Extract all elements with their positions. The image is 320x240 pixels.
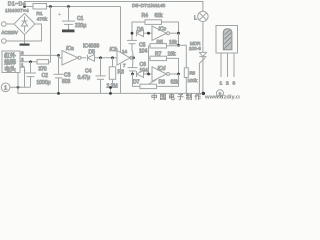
wire C1 drop x=68 [68, 7, 70, 21]
svg-text:14: 14 [122, 49, 128, 54]
svg-text:3: 3 [21, 51, 24, 56]
wire gate lead [199, 57, 205, 93]
wire C3 drop [58, 55, 60, 74]
svg-text:7: 7 [123, 63, 126, 68]
svg-text:62k: 62k [171, 80, 180, 86]
svg-text:D7: D7 [133, 79, 140, 85]
node R3 ground junction [109, 92, 112, 95]
resistor R1 [33, 4, 47, 10]
svg-text:370: 370 [38, 66, 47, 72]
terminal AC upper [2, 22, 7, 27]
node ICc output junction [177, 32, 180, 35]
wire VCC drop x=50 [49, 7, 51, 63]
svg-text:18k: 18k [168, 52, 177, 58]
svg-text:D5~D7:1N4148: D5~D7:1N4148 [132, 3, 166, 9]
node C4 junction [99, 56, 102, 59]
capacitor C2 [30, 62, 32, 73]
svg-text:C4: C4 [85, 69, 92, 75]
wire top +V rail [25, 6, 121, 8]
PIR module dome [223, 29, 232, 50]
svg-text:3: 3 [233, 81, 236, 87]
svg-text:热释: 热释 [4, 58, 16, 66]
wire terminal1 stub [10, 86, 31, 88]
node junction top rail left [23, 5, 26, 8]
svg-text:1: 1 [4, 86, 7, 92]
wire bridge minus drop [24, 35, 26, 44]
svg-text:R8: R8 [190, 70, 196, 75]
svg-text:100-6: 100-6 [189, 46, 201, 51]
node ICd input left junction [131, 73, 134, 76]
module pin 2 [227, 53, 229, 77]
terminal circle 1 [1, 83, 10, 92]
svg-text:2.2M: 2.2M [107, 84, 118, 90]
node ICb output junction [132, 56, 135, 59]
wire sensor box bottom lead [17, 73, 19, 88]
svg-text:R6: R6 [159, 80, 166, 86]
svg-text:红外: 红外 [4, 51, 16, 59]
wire AC lower to bridge right vertex [6, 24, 41, 41]
svg-text:104: 104 [139, 48, 148, 54]
node ICd output junction [177, 73, 180, 76]
wire SCR gate feed [179, 45, 187, 68]
ground under bridge [20, 44, 30, 46]
thyristor VS [202, 22, 204, 53]
resistor R3 [112, 58, 114, 67]
svg-text:R1: R1 [36, 11, 42, 17]
node ICc input junction [131, 32, 134, 35]
node junction top rail C1 [67, 5, 70, 8]
node C3 ground junction [57, 92, 60, 95]
node R3 stub junction [109, 86, 112, 89]
node R5 junction [177, 44, 180, 47]
resistor R8 [184, 68, 188, 78]
capacitor C3 [54, 73, 64, 75]
terminal circle 2 [216, 90, 223, 97]
wire AC upper [6, 23, 13, 25]
svg-text:ICb: ICb [110, 47, 118, 53]
resistor R6 loop [133, 74, 141, 86]
node sensor drain junction [29, 60, 32, 63]
svg-text:+: + [58, 12, 61, 18]
module pin 3 [233, 53, 235, 77]
svg-text:D1~D4: D1~D4 [8, 2, 26, 8]
capacitor C6 [132, 58, 135, 68]
svg-text:18k: 18k [169, 40, 178, 46]
wire ground rail [18, 87, 204, 93]
node SCR cathode ground [202, 92, 205, 95]
svg-text:62k: 62k [155, 13, 164, 19]
node junction top rail mid [49, 5, 52, 8]
PIR sensor head box [2, 51, 20, 73]
svg-text:IC4069: IC4069 [83, 43, 99, 49]
terminal AC lower [2, 39, 7, 44]
svg-text:2: 2 [21, 57, 24, 62]
svg-text:C2: C2 [42, 73, 49, 79]
svg-text:220μ: 220μ [75, 23, 86, 29]
svg-text:503: 503 [62, 79, 71, 85]
bridge rectifier D1-D4 [14, 13, 35, 34]
bridge inner diode [24, 17, 26, 22]
wire ICc out drop [178, 33, 180, 45]
PIR module case [216, 26, 238, 54]
wire top lamp feed [25, 2, 203, 12]
node ICd input junction [147, 73, 150, 76]
svg-text:C1: C1 [77, 16, 84, 22]
module pin 1 [220, 53, 222, 77]
node D6 anode junction [147, 32, 150, 35]
wire R5/R7 left riser [148, 46, 150, 74]
ground under C1 [62, 30, 75, 33]
node stub junction [17, 86, 20, 89]
capacitor C4 [100, 58, 102, 76]
svg-text:470k: 470k [37, 16, 48, 22]
svg-text:L: L [194, 16, 197, 22]
svg-text:0.47μ: 0.47μ [78, 75, 91, 81]
svg-text:100k: 100k [188, 78, 198, 83]
node R3 junction [111, 56, 114, 59]
svg-text:C3: C3 [64, 72, 71, 78]
svg-text:ICa: ICa [66, 46, 74, 52]
svg-text:AC220V: AC220V [2, 30, 18, 35]
pin 14 lead [120, 7, 122, 53]
svg-text:R4: R4 [142, 13, 149, 19]
capacitor C5 [131, 33, 133, 40]
svg-text:1000μ: 1000μ [37, 80, 51, 86]
svg-text:www.dzdiy.cn: www.dzdiy.cn [204, 95, 240, 101]
svg-text:电头: 电头 [4, 65, 16, 73]
svg-text:中国电子制作: 中国电子制作 [151, 92, 203, 101]
diode D7 [136, 71, 138, 77]
svg-text:1: 1 [220, 81, 223, 87]
svg-text:1N4007×4: 1N4007×4 [5, 8, 29, 13]
resistor R2 [37, 60, 49, 64]
node ICa input junction [57, 54, 60, 57]
pin 7 lead [120, 64, 122, 94]
svg-text:2: 2 [226, 81, 229, 87]
